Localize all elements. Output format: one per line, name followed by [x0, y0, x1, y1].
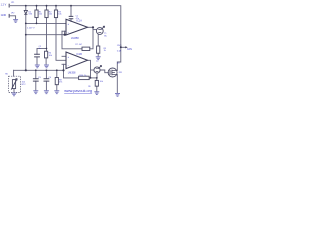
svg-text:NTC: NTC: [22, 84, 27, 86]
svg-text:1.107 V: 1.107 V: [27, 27, 35, 29]
svg-text:GND: GND: [1, 14, 7, 17]
svg-text:FAN: FAN: [127, 48, 132, 51]
svg-text:47k: 47k: [59, 82, 62, 84]
svg-text:R10: R10: [80, 75, 83, 77]
svg-text:1k: 1k: [84, 75, 86, 77]
svg-text:www.pavouk.org: www.pavouk.org: [64, 89, 92, 93]
svg-text:LM358: LM358: [71, 37, 79, 40]
svg-text:10k: 10k: [58, 14, 61, 16]
svg-text:LM358: LM358: [68, 72, 76, 75]
svg-text:1u: 1u: [39, 48, 41, 50]
svg-text:IC1B: IC1B: [77, 53, 83, 56]
svg-text:10k: 10k: [49, 14, 52, 16]
svg-text:10k: 10k: [49, 55, 52, 57]
svg-text:4k7: 4k7: [79, 44, 82, 46]
svg-text:R9: R9: [88, 86, 90, 88]
svg-text:IC1A: IC1A: [77, 20, 83, 23]
svg-text:1.2 V: 1.2 V: [1, 3, 7, 6]
svg-text:22k: 22k: [39, 14, 42, 16]
svg-text:10k: 10k: [100, 81, 103, 83]
svg-text:R7: R7: [75, 44, 77, 46]
svg-text:1k: 1k: [104, 50, 106, 52]
